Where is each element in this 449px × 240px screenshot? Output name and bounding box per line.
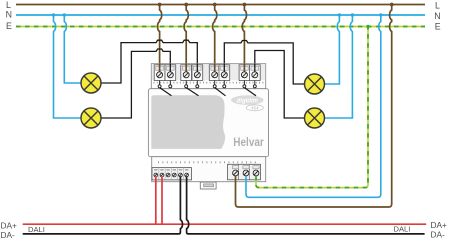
relay contact K3 [213,81,226,96]
svg-text:L: L [435,1,440,11]
relay block 3 terminals [209,65,229,81]
relay contact K2 [185,81,199,96]
wire brown drop to relay block 1 [158,5,162,71]
device main body [148,89,268,157]
svg-text:E: E [6,21,12,31]
device vent ticks bottom [158,161,256,163]
wire red DA+ vertical 2 [161,176,163,224]
wire blue lamp R2 to N [325,15,352,118]
wire E (earth, green/yellow, top) [16,26,425,28]
wire brown drop to relay block 4 [242,5,246,71]
wire stubs into relay terminals [160,64,255,72]
device U1 Helvar 454 body: upper terminal section [151,64,265,89]
mains terminal block bottom-right [228,164,261,180]
svg-text:Helvar: Helvar [233,135,264,149]
svg-text:N: N [6,10,12,20]
junction dot N / blue lamp L2 [52,13,55,16]
relay block 4 terminals [239,65,260,81]
wire red DA+ bus [23,223,427,225]
wire black DA- vertical right + bus right [187,176,425,234]
wire blue lamp R1 to N [325,15,339,84]
wire blue N to lamp L1 [64,15,81,83]
DIN clip bottom [200,182,216,189]
relay block 1 terminals [154,65,176,81]
svg-text:E: E [435,22,441,32]
wire brown device to L right loop [236,5,392,208]
lamp L1 [81,73,101,93]
lamp R1 [305,74,325,94]
wire black lamp L1 to relay 2 output [101,40,197,83]
device lower terminal section [152,157,266,182]
wire black relay 4 output to lamp R2 [255,51,304,119]
wire red DA+ vertical 1 [155,176,157,224]
junction dot N / blue lamp R1 [338,13,341,16]
wire brown drop to relay block 2 [184,5,188,71]
wire L (live, brown, top) [16,4,425,6]
wire black lamp L2 to relay 1 output [101,49,170,118]
junction dot N / blue lamp L1 [63,13,66,16]
svg-text:DA+: DA+ [1,220,18,230]
junction dot L / brown 3 [213,3,217,7]
junction dot E / earth right [366,25,369,28]
svg-text:DA-: DA- [1,230,16,240]
relay block 2 terminals [181,65,203,81]
wire earth device to E right loop [256,27,368,188]
svg-text:N: N [434,11,440,21]
lamp L2 [81,108,101,128]
junction dot N / blue right [379,13,382,16]
device vent ticks top [154,82,265,84]
svg-text:454: 454 [251,106,259,111]
junction dot L / brown 2 [184,3,188,7]
svg-text:DALI: DALI [28,225,45,234]
junction dot N / blue lamp R2 [351,13,354,16]
wire blue N to lamp L2 [54,15,82,118]
wire blue device to N right loop [246,15,381,197]
svg-text:digidim: digidim [237,98,259,104]
wire brown drop to relay block 3 [213,5,217,71]
junction dot L / brown right [390,3,394,7]
relay contact K4 [243,81,256,96]
lamp R2 [305,108,325,128]
wire black DA- vertical left + bus left [23,176,183,234]
wire black relay 3 output to lamp R1 [224,41,304,85]
device grey front panel [151,95,225,149]
wire N (neutral, blue, top) [16,14,425,16]
junction dot L / brown 4 [243,3,247,7]
svg-text:L: L [6,0,11,10]
DALI terminal block bottom-left [152,168,192,180]
digidim logo [231,95,264,111]
relay contact K1 [158,81,172,96]
junction dot L / brown 1 [158,3,162,7]
svg-text:DALI: DALI [394,225,411,234]
svg-text:DA-: DA- [431,229,446,239]
